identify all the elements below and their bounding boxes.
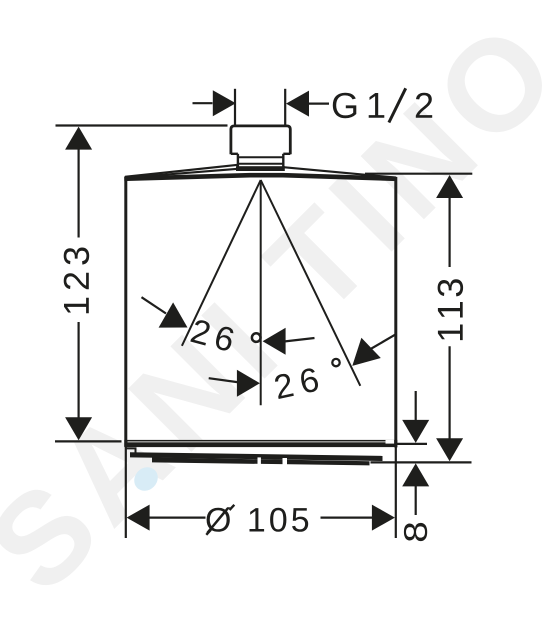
wire: 123 dim line lower (77, 322, 79, 419)
arrow: diameter right (points right) (372, 505, 395, 531)
leader arrow 3 (points right at centerline) (209, 370, 260, 397)
wire: 113 dim line lower (449, 346, 451, 439)
label 26 deg lower (274, 367, 320, 399)
leader arrow 4 (points down-left at right angle line) (352, 335, 395, 366)
spray plate left step (126, 448, 136, 452)
label G1/2 slash (389, 88, 406, 122)
wire: 8 dim line below (415, 486, 417, 516)
wire: diameter dim line left (149, 516, 206, 518)
body right edge (394, 177, 397, 448)
wire: G1/2 dim line left tail (193, 102, 213, 104)
wire: diameter dim line right (321, 516, 374, 518)
degree symbol upper (252, 333, 261, 342)
wire: 113 extension line top (365, 173, 472, 175)
wire: 8 dim line above (415, 391, 417, 422)
body top face sliver right (283, 167, 396, 177)
wire: G1/2 extension line right (284, 89, 286, 125)
wire: diameter extension line right (395, 448, 397, 539)
diameter slash extensions (206, 530, 211, 535)
spray plate band (130, 452, 383, 461)
label 113 (438, 279, 464, 340)
body bottom right thin tail notch (386, 440, 395, 444)
nozzle band (152, 457, 370, 465)
arrow: 113 bottom (points down) (436, 438, 463, 461)
arrow: 8 bottom (points up) (402, 463, 429, 486)
body top face sliver left (125, 165, 238, 177)
wire: 123 extension line bottom (55, 440, 122, 442)
arrow: diameter left (points left) (127, 505, 150, 531)
wire: 113 dim line upper (449, 197, 451, 267)
body left edge (124, 177, 127, 447)
wire: 123 extension line top (56, 124, 228, 126)
body bottom edge band (124, 440, 397, 447)
spray angle line right (261, 180, 361, 386)
leader arrow 2 (points left at centerline) (263, 328, 315, 355)
connector nut G1/2 (231, 126, 290, 168)
arrow: G1/2 right (points left) (286, 91, 309, 117)
node: center axis line (260, 180, 262, 405)
arrow: 123 bottom (points down) (65, 417, 92, 440)
wire: 8 extension line top (397, 443, 427, 445)
label 123 (64, 248, 90, 314)
label 8 (404, 523, 427, 541)
label G 1/2 (333, 93, 432, 119)
arrow: G1/2 left (points right) (213, 90, 236, 116)
body top edge (124, 175, 396, 179)
body top face inner line left (126, 169, 238, 178)
label diameter 105 (206, 507, 308, 532)
wire: 113 extension line bottom (371, 461, 472, 463)
arrow: 8 top (points down) (402, 420, 429, 443)
arrow: 123 top (points up) (65, 127, 92, 150)
wire: G1/2 extension line left (234, 89, 236, 125)
wire: 123 dim line upper (77, 148, 79, 238)
watermark water drop (129, 462, 162, 495)
arrow: 113 top (points up) (436, 175, 463, 198)
spray angle line left (182, 180, 261, 346)
wire: diameter extension line left (125, 447, 127, 539)
label 26 deg upper (190, 319, 235, 353)
leader arrow 1 (left 26 deg) (142, 297, 188, 327)
connector base block (236, 166, 285, 171)
degree symbol lower (332, 359, 339, 366)
wire: G1/2 leader to text (309, 102, 329, 104)
